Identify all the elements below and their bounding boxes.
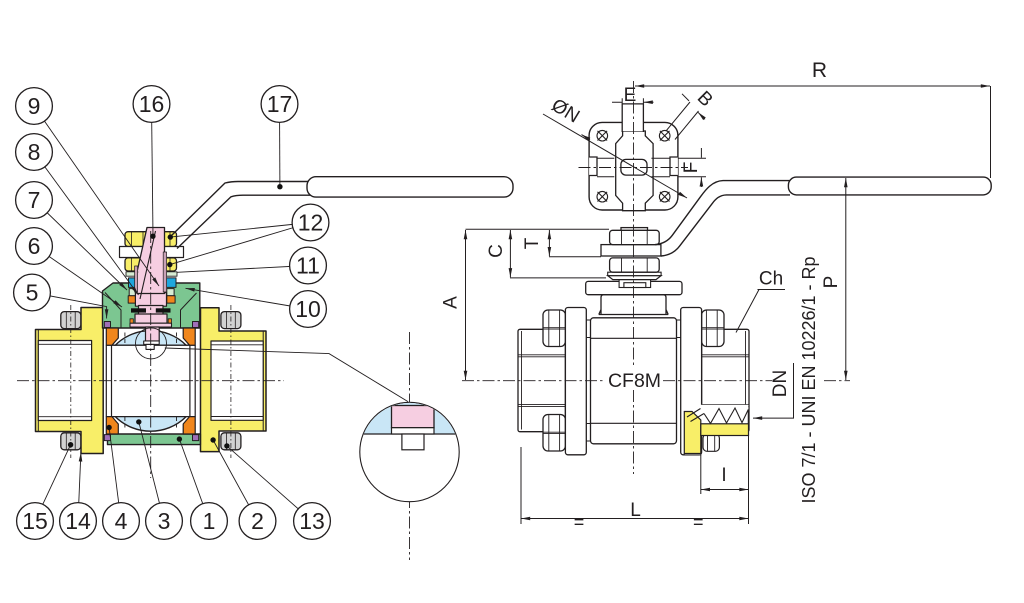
centerline vertical right valve	[633, 81, 635, 474]
svg-text:13: 13	[299, 508, 325, 534]
stem nut row2 right (yellow)	[156, 258, 177, 271]
balloon 14	[60, 503, 97, 540]
balloon 17	[261, 86, 298, 123]
washer small left (light green)	[129, 289, 136, 296]
bolt nut stack top-right (front)	[702, 310, 724, 347]
handle grip (front)	[788, 177, 991, 195]
centerline stub for P	[824, 380, 850, 382]
handle nut row1 right (yellow)	[156, 232, 177, 247]
thread highlight body (yellow)	[684, 412, 701, 454]
handle nut row1 left (yellow)	[125, 232, 150, 247]
bolt nut gray bottom-right	[221, 433, 241, 450]
svg-text:R: R	[812, 59, 827, 82]
bolt hole top-left	[597, 130, 608, 141]
leader 6	[34, 246, 122, 307]
leader 3	[139, 422, 164, 521]
leader 12a	[170, 223, 310, 238]
bolt centerline left	[70, 305, 72, 458]
thread zigzag	[687, 408, 748, 424]
thread zone clear	[685, 405, 749, 424]
balloon 6	[16, 228, 53, 265]
handle grip (left view)	[307, 177, 513, 197]
balloon 2	[239, 503, 276, 540]
dim C	[509, 230, 511, 277]
balloon 9	[16, 88, 53, 125]
bolt nut gray bottom-left	[61, 433, 81, 450]
leader 15	[35, 445, 71, 521]
thrust ring left (orange)	[128, 296, 136, 303]
body center (front)	[591, 318, 677, 444]
leader 11	[177, 266, 308, 273]
seat bottom-left (orange)	[106, 417, 118, 434]
bolt nut stack bottom-left (front)	[543, 415, 565, 452]
stem base seal right (orange)	[168, 319, 171, 323]
dim L	[520, 447, 522, 524]
dot item2 cap	[210, 437, 215, 442]
flat washer	[608, 272, 661, 275]
detail circle centerline	[409, 332, 411, 560]
svg-text:ØN: ØN	[548, 95, 583, 128]
svg-text:9: 9	[28, 93, 41, 119]
dot item3 ball	[136, 419, 141, 424]
seat top-right (orange)	[183, 328, 195, 345]
mounting plate (front)	[586, 281, 682, 294]
stem tab bar (white)	[144, 341, 160, 344]
stem side strip right (mauve)	[163, 252, 166, 292]
stem boss through plate	[619, 280, 651, 288]
leader 10	[186, 288, 309, 309]
svg-text:10: 10	[295, 296, 321, 322]
dim T	[548, 230, 550, 256]
stem wedge (pink)	[137, 228, 165, 273]
conical washer	[608, 276, 661, 280]
leader 16	[152, 104, 154, 236]
svg-text:17: 17	[267, 91, 293, 117]
stem tab (pink)	[146, 327, 160, 341]
dim A	[466, 228, 610, 230]
dot item4 seat	[106, 425, 111, 430]
svg-text:1: 1	[203, 508, 216, 534]
thread insert hex nut (white)	[703, 434, 719, 451]
stem nut row2 left (yellow)	[125, 258, 150, 271]
balloon 3	[146, 503, 183, 540]
body walls	[106, 345, 195, 416]
dim N diameter line	[543, 114, 687, 198]
stem tip (front)	[621, 228, 648, 231]
balloon 4	[103, 503, 140, 540]
balloon 13	[294, 503, 331, 540]
stem boss (top view)	[616, 131, 653, 211]
seat bottom-right (orange)	[183, 417, 195, 434]
svg-text:A: A	[441, 296, 462, 309]
bore lines	[106, 345, 195, 416]
svg-text:ISO 7/1 - UNI EN 10226/1 - Rp: ISO 7/1 - UNI EN 10226/1 - Rp	[799, 256, 819, 503]
leader 12b	[170, 223, 311, 265]
svg-text:L: L	[630, 500, 641, 521]
balloon 7	[16, 182, 53, 219]
dim P	[845, 178, 847, 380]
centerline horizontal (left valve axis)	[17, 380, 284, 382]
detail tab (white)	[402, 434, 424, 450]
leader 14	[78, 452, 81, 521]
dim I	[701, 420, 749, 524]
stem o-ring right (blue)	[166, 278, 176, 288]
balloon 16	[133, 86, 170, 123]
packing ring left (black)	[131, 308, 146, 312]
leader 8	[34, 152, 139, 295]
ball bore hidden lines	[125, 333, 177, 430]
bolt hole top-right	[659, 130, 670, 141]
stem base strip (pink)	[130, 323, 172, 327]
body seal top-left (purple)	[104, 322, 110, 328]
DN leader	[753, 363, 794, 418]
bolt hole bottom-left	[597, 191, 608, 202]
handle bracket plate (front)	[601, 245, 661, 256]
end cap left (yellow)	[36, 308, 104, 454]
washer plate (white)	[120, 247, 184, 258]
body seal bottom-left (purple)	[104, 435, 110, 441]
handle rod (front)	[655, 181, 790, 245]
flange plate left (front)	[565, 308, 586, 455]
svg-text:7: 7	[28, 187, 41, 213]
balloon 10	[290, 291, 327, 328]
svg-text:CF8M: CF8M	[608, 370, 661, 392]
body seal top-right (purple)	[193, 322, 199, 328]
stem shaft (pink)	[139, 306, 164, 317]
dot item12 nut2	[167, 262, 172, 267]
centerline vertical (stem axis)	[150, 231, 152, 478]
leader 4	[109, 428, 121, 522]
svg-text:F: F	[681, 162, 702, 174]
stem side strip left (mauve)	[135, 266, 138, 292]
spigot bands	[586, 320, 680, 441]
dot item13 bolt	[224, 443, 229, 448]
pad notch right	[670, 157, 678, 176]
centerline horizontal right valve	[462, 380, 772, 382]
bolt nut gray top-left	[61, 312, 81, 329]
leader 7	[34, 200, 127, 290]
stem flange (pink)	[135, 293, 166, 307]
svg-text:15: 15	[22, 508, 48, 534]
leader 2	[213, 440, 257, 521]
stem nut upper (front)	[610, 230, 660, 244]
svg-text:11: 11	[296, 253, 320, 279]
ISO pad (top view)	[589, 122, 678, 210]
svg-text:=: =	[693, 512, 704, 532]
svg-text:14: 14	[65, 508, 91, 534]
svg-text:16: 16	[139, 91, 165, 117]
bonnet (green body top)	[103, 283, 200, 328]
thrust ring right (orange)	[167, 296, 175, 303]
neck (front)	[599, 295, 668, 315]
balloon 5	[14, 274, 51, 311]
svg-text:P: P	[821, 276, 842, 289]
dot item12 nut1	[168, 234, 173, 239]
svg-text:DN: DN	[770, 370, 791, 397]
end cap right (yellow)	[201, 308, 267, 452]
dim B	[666, 102, 699, 140]
union nut left (front)	[518, 329, 565, 431]
svg-text:2: 2	[251, 508, 264, 534]
svg-text:Ch: Ch	[759, 269, 783, 290]
dim R	[635, 85, 990, 87]
bolt hole bottom-right	[659, 191, 670, 202]
svg-text:12: 12	[298, 210, 324, 236]
seat top-left (orange)	[106, 328, 118, 345]
svg-text:=: =	[574, 512, 585, 532]
thread highlight arm (yellow)	[701, 424, 749, 436]
handle (left view)	[171, 182, 460, 237]
flange plate right (front)	[681, 308, 702, 455]
detail circle	[360, 402, 459, 501]
balloon 1	[191, 503, 228, 540]
union nut right (front)	[702, 329, 749, 431]
leader 13	[227, 446, 312, 521]
leader 9	[34, 106, 159, 286]
svg-text:B: B	[693, 87, 717, 111]
dot item1 body	[177, 436, 182, 441]
centerline pad horizontal	[579, 167, 689, 169]
balloon 15	[17, 503, 54, 540]
svg-text:C: C	[486, 244, 507, 258]
dot item15 nut	[68, 442, 73, 447]
stem o-ring left (blue)	[129, 278, 139, 288]
detail tab bar (white)	[392, 428, 435, 434]
dot item16 stem	[150, 234, 155, 239]
balloon 11	[290, 247, 327, 284]
stem tab end (white)	[146, 344, 154, 349]
leader 17	[279, 104, 281, 187]
balloon 12	[292, 204, 329, 241]
svg-text:8: 8	[28, 139, 41, 165]
dim F	[597, 158, 706, 177]
stem base seal left (orange)	[130, 319, 133, 323]
bolt nut gray top-right	[221, 312, 241, 329]
stem hole (top view)	[621, 159, 647, 175]
body seal bottom-right (purple)	[193, 435, 199, 441]
washer small right (light green)	[167, 289, 174, 296]
leader 5	[32, 293, 107, 319]
svg-text:I: I	[721, 465, 726, 486]
svg-text:3: 3	[158, 508, 171, 534]
handle tab (top view)	[622, 104, 643, 131]
pad notch left	[589, 157, 597, 176]
bolt centerline right	[230, 305, 232, 458]
detail reference circle	[136, 328, 167, 359]
svg-text:6: 6	[28, 233, 41, 259]
packing ring right (black)	[156, 308, 171, 312]
svg-text:5: 5	[26, 280, 39, 306]
dot Ch nut	[732, 332, 737, 337]
detail leader line	[165, 348, 408, 402]
stem bottom block (pink)	[135, 314, 167, 323]
svg-text:4: 4	[115, 508, 128, 534]
leader 1	[179, 439, 209, 521]
detail stem end (pink)	[392, 406, 435, 428]
detail chord line	[359, 433, 460, 435]
stem nut lower (front)	[610, 258, 660, 272]
svg-text:E: E	[624, 85, 637, 106]
body bottom plate (green)	[108, 434, 201, 445]
bolt nut stack top-left (front)	[543, 310, 565, 347]
svg-text:T: T	[522, 237, 543, 249]
gland washer strip (light green)	[126, 272, 177, 276]
dot item17 handle	[277, 184, 282, 189]
dim E	[622, 98, 643, 103]
balloon 8	[16, 134, 53, 171]
detail ball segment (light blue)	[359, 395, 460, 434]
stem column (pink)	[137, 272, 165, 294]
